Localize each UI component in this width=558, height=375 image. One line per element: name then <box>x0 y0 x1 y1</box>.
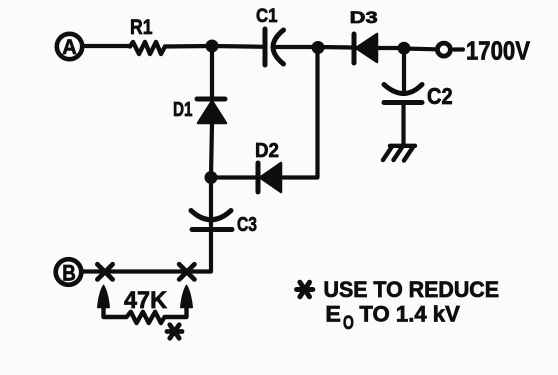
svg-text:A: A <box>62 36 77 59</box>
asterisk below 47K <box>167 325 182 338</box>
wire node 1 to C1 <box>212 44 264 49</box>
X mark 2 <box>179 264 194 279</box>
wire C3 down and left to B <box>82 230 211 272</box>
svg-text:1700V: 1700V <box>466 37 530 65</box>
svg-text:C3: C3 <box>237 213 257 236</box>
arrow right <box>181 286 192 308</box>
terminal dash <box>454 47 463 51</box>
wire D1 to node 4 <box>211 123 212 178</box>
wire D3 to node 3 <box>377 46 404 50</box>
wire C1 to node 2 <box>276 45 318 49</box>
capacitor C1 <box>265 29 284 65</box>
svg-text:C2: C2 <box>427 83 453 109</box>
svg-text:R1: R1 <box>130 16 153 39</box>
X mark 1 <box>97 264 112 279</box>
node 4 junction <box>205 171 218 184</box>
terminal A <box>57 34 82 59</box>
node 2 junction <box>312 41 325 54</box>
ground <box>383 146 415 161</box>
svg-text:D3: D3 <box>350 8 378 27</box>
wire node 3 to -1700V terminal <box>404 46 436 51</box>
asterisk in note <box>297 282 313 297</box>
wire node 2 to D3 <box>318 45 354 50</box>
resistor R1 <box>130 42 165 54</box>
diode D1 <box>197 99 226 123</box>
diode D2 <box>258 163 281 192</box>
terminal B <box>56 259 82 285</box>
node 3 junction <box>398 42 411 55</box>
arrow left <box>98 286 109 308</box>
svg-text:C1: C1 <box>256 5 278 27</box>
wire R1 to node 1 <box>165 44 212 49</box>
svg-text:47K: 47K <box>124 287 167 314</box>
capacitor C3 <box>191 211 232 230</box>
wire node 3 down to C2 <box>402 48 406 94</box>
wire C2 to ground <box>401 103 405 145</box>
diode D3 <box>354 34 377 63</box>
resistor 47K with leads <box>104 305 187 323</box>
wire D2 to node 2 (right corner) <box>281 47 318 178</box>
node 1 junction <box>206 40 219 53</box>
capacitor C2 <box>384 85 422 103</box>
wire node 1 down to D1 <box>210 46 214 99</box>
svg-text:B: B <box>62 261 76 286</box>
wire A to R1 <box>84 44 130 48</box>
svg-text:D2: D2 <box>255 139 279 162</box>
terminal -1700V <box>437 43 450 56</box>
svg-text:E: E <box>325 302 341 327</box>
svg-text:USE TO REDUCE: USE TO REDUCE <box>324 277 500 302</box>
svg-text:O: O <box>343 312 354 334</box>
svg-text:TO 1.4 kV: TO 1.4 kV <box>359 302 460 327</box>
wire node 4 to D2 <box>211 175 256 179</box>
wire node 4 down to C3 <box>209 178 213 227</box>
svg-text:D1: D1 <box>173 98 193 121</box>
